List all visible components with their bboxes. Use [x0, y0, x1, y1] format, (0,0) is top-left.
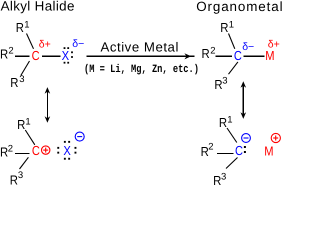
svg-text:1: 1 [229, 20, 234, 31]
svg-text:Active Metal: Active Metal [101, 40, 179, 55]
svg-text:C: C [234, 48, 242, 63]
svg-text:X: X [62, 48, 70, 63]
svg-text:3: 3 [19, 74, 24, 85]
svg-text:δ−: δ− [242, 41, 254, 53]
svg-text:3: 3 [222, 76, 227, 87]
svg-text:R: R [16, 20, 24, 35]
plus charge circle (red) [271, 133, 280, 142]
svg-text:2: 2 [210, 45, 215, 56]
svg-text:C: C [235, 143, 243, 158]
svg-text:1: 1 [25, 116, 30, 127]
svg-text:2: 2 [8, 46, 13, 57]
svg-text:1: 1 [24, 20, 29, 31]
wire R1-C [27, 34, 34, 49]
lone pair dots bottom of X [64, 62, 66, 64]
lone pair dots top of X [64, 141, 66, 143]
lone pair dots left of X [57, 147, 59, 149]
wire R2-C [15, 55, 29, 57]
wire C-R3 [229, 62, 238, 74]
svg-text:δ+: δ+ [268, 39, 280, 51]
svg-text:Alkyl Halide: Alkyl Halide [1, 0, 75, 14]
wire C-R3 [226, 158, 238, 169]
svg-text:δ−: δ− [72, 38, 84, 50]
lone pair dots bottom of X [64, 158, 66, 160]
minus charge circle (blue) [242, 134, 251, 143]
svg-text:R: R [17, 117, 25, 132]
svg-text:1: 1 [227, 115, 232, 126]
lone pair dots right of X [71, 51, 73, 53]
svg-text:3: 3 [18, 170, 23, 181]
resonance double arrow left [45, 87, 51, 123]
wire R1-C [25, 130, 35, 145]
svg-text:R: R [10, 75, 18, 90]
wire R2-C [216, 55, 232, 57]
wire R1-C [229, 34, 235, 49]
svg-text:R: R [220, 20, 228, 35]
minus charge circle (blue) [75, 132, 84, 141]
svg-text:3: 3 [221, 171, 226, 182]
lone pair dots top of X [64, 47, 66, 49]
wire R1-C [227, 128, 237, 143]
svg-text:δ+: δ+ [39, 38, 51, 50]
lone pair dots right of C [244, 146, 246, 148]
svg-text:R: R [219, 115, 227, 130]
svg-text:(M = Li, Mg, Zn, etc.): (M = Li, Mg, Zn, etc.) [84, 63, 199, 76]
svg-text:R: R [10, 173, 18, 186]
svg-text:Organometal: Organometal [196, 0, 282, 14]
svg-text:2: 2 [208, 142, 213, 153]
wire C-X [42, 55, 61, 57]
svg-text:X: X [63, 143, 71, 158]
lone pair dots right of X [75, 147, 77, 149]
wire arrow shaft [87, 55, 195, 57]
wire C-M [244, 55, 265, 57]
wire C-R3 [21, 61, 30, 76]
svg-text:R: R [0, 46, 8, 61]
arrowhead [184, 53, 191, 59]
svg-text:C: C [32, 143, 40, 158]
wire C-R3 [20, 157, 29, 169]
svg-text:M: M [264, 144, 273, 159]
svg-text:2: 2 [8, 144, 13, 155]
plus charge circle [42, 146, 50, 154]
wire R2-C [217, 152, 234, 154]
wire R2-C [15, 152, 30, 154]
resonance double arrow right [241, 81, 247, 119]
svg-text:R: R [202, 46, 210, 61]
